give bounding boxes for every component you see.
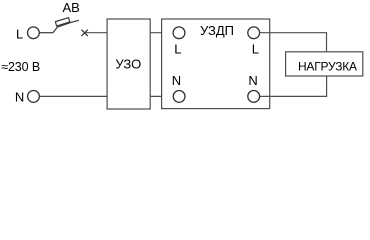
wire N UZDP output to load (horizontal then up) [260, 76, 327, 96]
svg-text:НАГРУЗКА: НАГРУЗКА [298, 60, 357, 74]
svg-text:≈230 В: ≈230 В [1, 60, 40, 74]
terminal circle N [28, 91, 40, 103]
wire breaker to UZO box [85, 32, 107, 34]
circuit breaker AB body rectangle [55, 18, 70, 26]
svg-text:L: L [16, 26, 23, 41]
UZDP input terminal circle N [173, 91, 185, 103]
svg-text:L: L [252, 41, 259, 56]
svg-text:N: N [15, 90, 24, 105]
svg-text:АВ: АВ [63, 0, 80, 15]
circuit breaker AB blade [53, 20, 79, 32]
circuit breaker AB contact cross [81, 30, 87, 36]
load box NAGRUZKA [286, 52, 363, 76]
device UZO box [107, 19, 150, 109]
wire N UZO to UZDP input terminal [150, 95, 173, 97]
svg-text:УЗДП: УЗДП [200, 23, 234, 38]
UZDP output terminal circle L [248, 27, 260, 39]
svg-text:УЗО: УЗО [115, 56, 141, 71]
UZDP output terminal circle N [248, 91, 260, 103]
device UZDP box [162, 19, 270, 109]
wire N terminal to UZO box [40, 95, 108, 97]
terminal circle L [28, 27, 40, 39]
wire L terminal to breaker blade [39, 32, 53, 34]
svg-text:N: N [172, 73, 181, 88]
wire L UZO to UZDP input terminal [150, 32, 173, 34]
wire L UZDP output to load (horizontal then down) [260, 33, 327, 52]
UZDP input terminal circle L [173, 27, 185, 39]
svg-text:L: L [174, 41, 181, 56]
svg-text:N: N [248, 73, 257, 88]
